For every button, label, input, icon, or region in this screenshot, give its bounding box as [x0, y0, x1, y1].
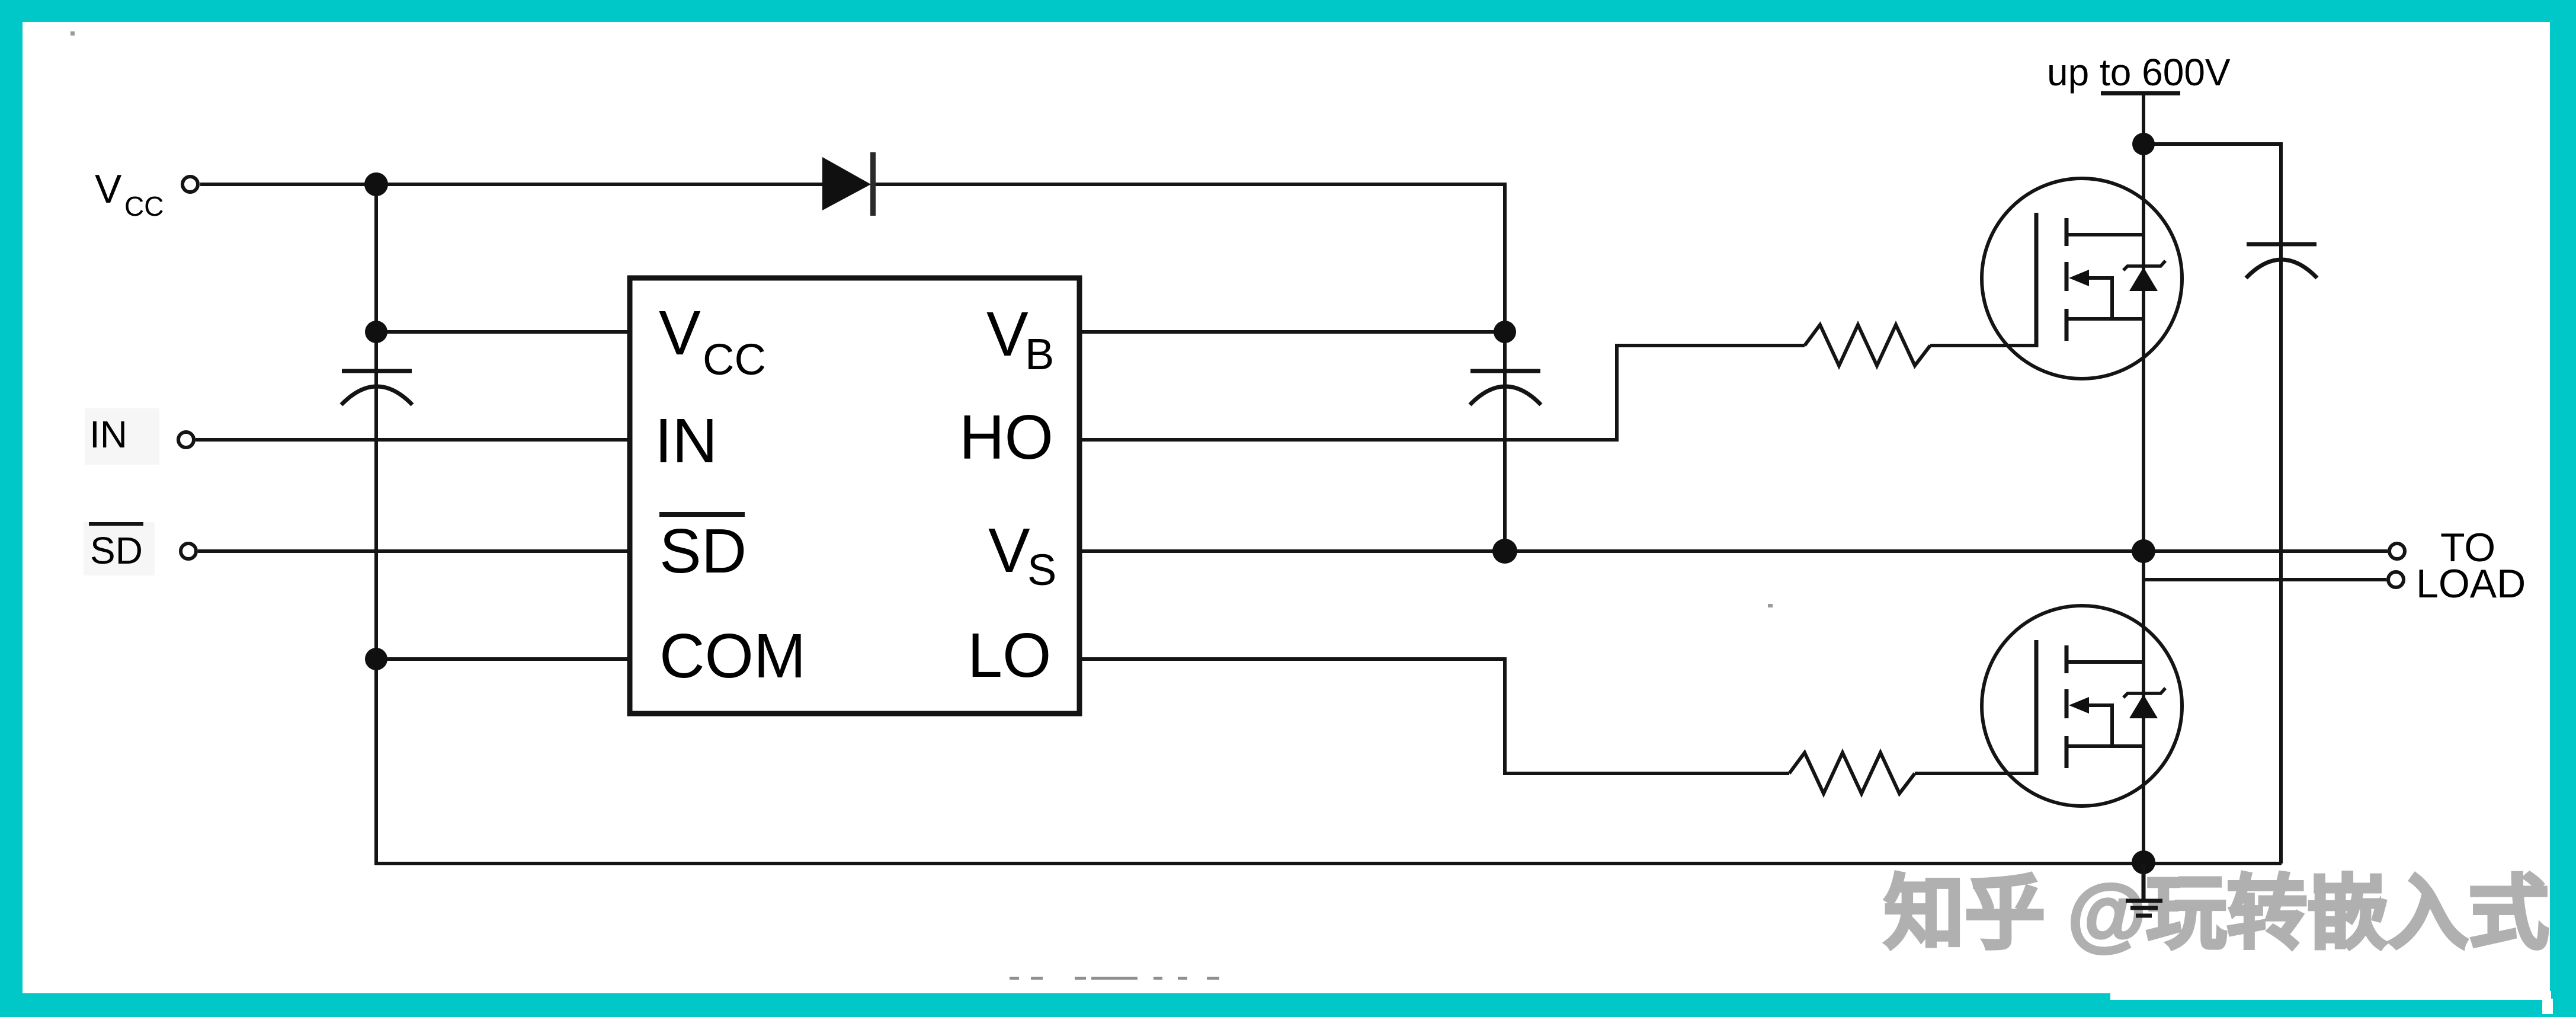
node dot bottom rail	[2132, 850, 2155, 874]
svg-text:up to 600V: up to 600V	[2047, 51, 2231, 94]
wire R2 to low gate	[1915, 772, 2036, 775]
white notch bottom right	[2110, 991, 2551, 1000]
speck top-left	[71, 31, 75, 36]
svg-text:V: V	[988, 516, 1030, 586]
wire VCC junction dot to IC VCC pin	[376, 330, 630, 334]
wire R1 to high gate	[1930, 344, 2036, 347]
resistor R1 zigzag	[1805, 325, 1930, 366]
svg-text:V: V	[659, 298, 701, 368]
svg-text:V: V	[95, 167, 122, 212]
svg-text:SD: SD	[659, 516, 746, 586]
capacitor C1 Vcc bypass	[341, 371, 412, 405]
svg-text:SD: SD	[90, 529, 143, 572]
wire LOAD tee to LOAD terminal	[2144, 578, 2386, 581]
wire 600V node to decoupling cap column	[2144, 144, 2281, 864]
svg-text:S: S	[1027, 545, 1056, 594]
terminal TO	[2389, 543, 2405, 559]
node dot 600V bus	[2132, 133, 2155, 155]
capacitor C2 bootstrap	[1470, 371, 1541, 405]
svg-text:IN: IN	[89, 413, 127, 456]
speck mid-right	[1768, 604, 1773, 607]
svg-text:B: B	[1025, 330, 1054, 379]
ground symbol	[2126, 864, 2162, 916]
wire HO pin to gate level and right to R1	[1079, 346, 1805, 440]
svg-text:HO: HO	[959, 402, 1053, 472]
wire diode cathode to corner, down to VB	[876, 184, 1505, 332]
resistor R2 zigzag	[1789, 753, 1915, 794]
svg-text:CC: CC	[703, 335, 766, 384]
cut-off text remnants bottom center	[1010, 977, 1219, 980]
MOSFET Q1 high side	[1982, 178, 2182, 379]
wire Vcc rail top	[200, 183, 822, 186]
svg-text:IN: IN	[655, 406, 717, 476]
wire VB pin to bootstrap column	[1079, 330, 1505, 334]
wire main switch column 600V bar to bottom rail	[2142, 93, 2145, 864]
wire SD terminal to IC	[198, 549, 630, 553]
svg-text:COM: COM	[659, 621, 806, 691]
terminal LOAD	[2388, 572, 2404, 587]
terminal Vcc	[182, 177, 198, 192]
svg-text:知乎 @玩转嵌入式: 知乎 @玩转嵌入式	[1884, 868, 2549, 958]
svg-text:LO: LO	[967, 621, 1051, 690]
wire IN terminal to IC	[196, 438, 630, 442]
faint label backgrounds	[85, 408, 159, 465]
wire COM dot to IC	[376, 657, 630, 661]
wire left column x=635 from Vcc junction down to bottom rail, and bottom rail to x=3851	[376, 184, 2282, 864]
node dot VS switch node	[2132, 539, 2155, 563]
svg-text:LOAD: LOAD	[2416, 561, 2526, 606]
MOSFET Q2 low side	[1982, 606, 2182, 806]
node dot COM branch	[365, 648, 387, 670]
wire bootstrap column VB to VS	[1503, 332, 1507, 551]
node dot Vcc junction	[364, 172, 388, 196]
terminal SD	[181, 543, 196, 559]
capacitor C3 bus decoupling	[2246, 244, 2317, 278]
IC U1 driver box	[630, 278, 1079, 714]
supply bar 600V	[2101, 91, 2180, 95]
node dot VCC pin branch	[365, 321, 387, 343]
wire VS pin to TO terminal	[1079, 549, 2388, 553]
terminal IN	[178, 432, 194, 447]
node dot VB bootstrap	[1494, 321, 1516, 343]
svg-text:V: V	[986, 299, 1029, 369]
svg-text:CC: CC	[124, 191, 164, 222]
wire LO pin down and right to R2	[1079, 659, 1789, 773]
node dot VS bootstrap return	[1492, 539, 1517, 564]
diode D1 bootstrap	[822, 157, 871, 210]
